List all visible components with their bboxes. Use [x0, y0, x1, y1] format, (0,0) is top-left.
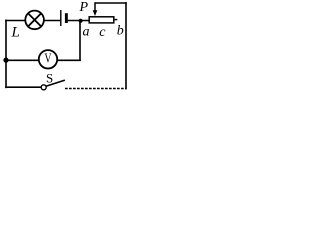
- svg-text:V: V: [44, 52, 51, 67]
- svg-text:L: L: [11, 25, 20, 41]
- svg-text:a: a: [83, 24, 90, 39]
- svg-text:c: c: [99, 25, 106, 40]
- svg-text:P: P: [79, 0, 89, 15]
- svg-text:S: S: [46, 70, 53, 85]
- svg-text:b: b: [117, 24, 124, 39]
